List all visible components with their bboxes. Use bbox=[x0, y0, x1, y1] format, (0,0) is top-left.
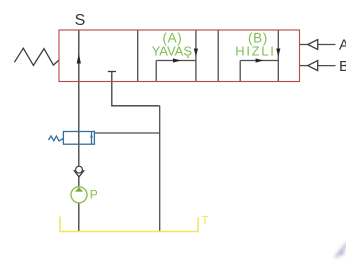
svg-text:T: T bbox=[202, 215, 209, 227]
svg-text:B: B bbox=[339, 58, 346, 75]
svg-text:P: P bbox=[90, 188, 98, 202]
svg-text:A: A bbox=[339, 37, 346, 54]
svg-text:YAVAŞ: YAVAŞ bbox=[152, 44, 193, 59]
svg-text:HIZLI: HIZLI bbox=[235, 44, 275, 59]
svg-text:S: S bbox=[75, 12, 86, 29]
